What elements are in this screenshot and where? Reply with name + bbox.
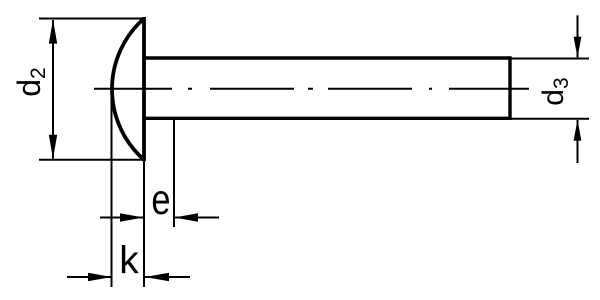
d3 top extension line — [510, 58, 589, 60]
centerline — [94, 88, 529, 90]
d3 lower arrow — [574, 120, 582, 141]
k left dimension line — [67, 276, 111, 278]
rivet head face — [142, 17, 146, 161]
e right arrow — [174, 213, 198, 221]
svg-text:d2: d2 — [11, 67, 50, 96]
k right arrow — [145, 273, 169, 281]
shank top line — [144, 56, 510, 59]
d2 top arrow — [49, 20, 57, 44]
d2 dimension line — [52, 20, 54, 159]
rivet head arc — [112, 19, 144, 160]
d2 top extension line — [39, 18, 144, 20]
e extension line — [173, 117, 175, 227]
k right dimension line — [145, 276, 190, 278]
d3 upper arrow — [574, 37, 582, 58]
svg-text:e: e — [151, 176, 170, 223]
svg-text:k: k — [119, 240, 139, 283]
k left arrow — [88, 273, 112, 281]
d3 upper dimension line — [577, 15, 579, 57]
d2 bottom arrow — [49, 135, 57, 159]
e left dimension line — [100, 217, 143, 219]
e left arrow — [120, 213, 144, 221]
k extension line — [111, 89, 113, 287]
d3 lower dimension line — [577, 120, 579, 163]
e right dimension line — [175, 217, 219, 219]
d3 bottom extension line — [510, 118, 589, 120]
shank end line — [508, 56, 511, 120]
shank bottom line — [144, 117, 510, 120]
d2 bottom extension line — [39, 159, 144, 161]
head face extension line — [143, 160, 145, 287]
svg-text:d3: d3 — [537, 77, 573, 105]
